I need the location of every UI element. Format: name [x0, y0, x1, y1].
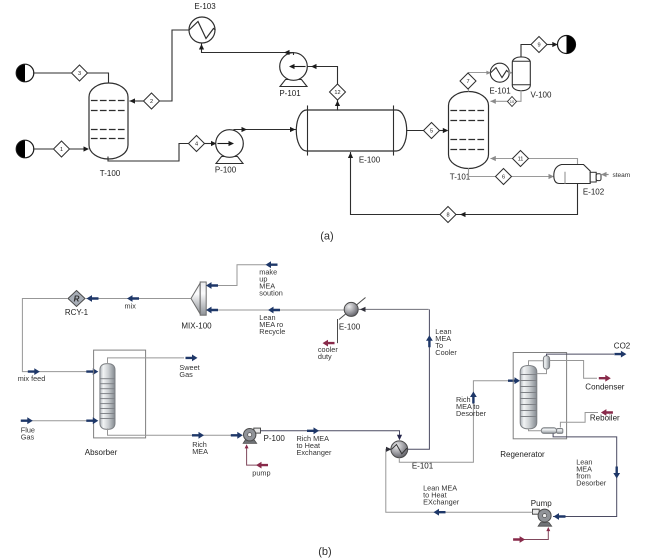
wire feed to diamond 3 — [34, 72, 72, 74]
wire P-100 to E-100 — [234, 127, 296, 132]
wire V-100 top to diamond 9 — [521, 45, 531, 58]
svg-text:10: 10 — [510, 99, 515, 104]
heat exchanger E-103 — [189, 17, 215, 43]
steam inlet arrow — [601, 172, 608, 177]
wire E-100 to diamond 5 — [407, 130, 424, 132]
stream diamond 10 — [508, 97, 517, 107]
svg-text:E-101: E-101 — [489, 87, 511, 96]
stream diamond 1 — [54, 141, 70, 157]
wire T-101 top to E-101 (gray) — [469, 73, 492, 92]
svg-text:P-100: P-100 — [215, 166, 237, 175]
svg-text:P-100: P-100 — [264, 434, 286, 443]
stream diamond 12 — [330, 84, 346, 100]
svg-text:2: 2 — [150, 99, 153, 105]
column T-100 — [89, 83, 128, 159]
wire flue gas into absorber — [21, 417, 99, 424]
wire T-101 bottom to diamond 6 to E-102 (gray) — [469, 169, 555, 179]
wire rich MEA P-100 to E-101 — [261, 427, 403, 440]
wire V-100 bottom to T-101 (gray) — [490, 91, 521, 104]
wire P-101 to E-103 — [199, 44, 294, 55]
svg-text:FlueGas: FlueGas — [21, 426, 35, 442]
wire CO2 out — [547, 351, 627, 358]
stream diamond 7 — [460, 73, 476, 89]
stream diamond 5 — [424, 123, 440, 139]
wire E-101 bottom to regenerator (rich MEA to desorber) — [399, 377, 520, 462]
heat exchanger E-100 (shell) — [296, 106, 406, 155]
svg-text:RichMEA: RichMEA — [192, 440, 208, 456]
wire lean MEA to cooler (E-101 up) — [408, 309, 433, 449]
wire MIX-100 to RCY-1 (stream mix) — [85, 295, 191, 302]
condenser drum — [543, 356, 549, 369]
wire diamond 9 into product circle — [547, 42, 558, 47]
svg-text:Absorber: Absorber — [85, 448, 118, 457]
wire diamond 1 into T-100 — [70, 146, 90, 151]
svg-text:11: 11 — [518, 157, 524, 163]
svg-text:Reboiler: Reboiler — [590, 414, 620, 423]
svg-text:RCY-1: RCY-1 — [65, 308, 89, 317]
cooler E-100 — [339, 298, 366, 320]
svg-text:P-101: P-101 — [279, 89, 301, 98]
svg-text:4: 4 — [195, 142, 198, 148]
wire cooler duty energy — [323, 319, 338, 347]
wire column bottom to reboiler — [529, 429, 542, 431]
svg-text:E-102: E-102 — [583, 188, 605, 197]
feed stream source circle (bottom left) — [16, 140, 34, 158]
feed stream source circle (top left) — [16, 64, 34, 82]
stream diamond 3 — [72, 65, 88, 81]
svg-text:E-100: E-100 — [359, 156, 381, 165]
pump P-100 — [216, 130, 244, 164]
wire pump outlet (lean MEA to heat exchanger) — [386, 447, 533, 516]
wire condenser energy — [550, 361, 611, 382]
svg-text:1: 1 — [60, 147, 63, 153]
svg-text:(a): (a) — [320, 231, 333, 243]
absorber column — [100, 364, 115, 430]
svg-text:pump: pump — [252, 469, 270, 478]
wire lean MEA from desorber to pump — [553, 433, 620, 520]
wire E-102 top to T-101 (stream 11, gray) — [490, 156, 577, 164]
column T-101 — [449, 92, 489, 169]
svg-text:E-103: E-103 — [194, 2, 216, 11]
wire feed to diamond 1 — [34, 148, 54, 150]
svg-text:12: 12 — [334, 90, 340, 96]
reboiler E-102 — [554, 165, 601, 184]
svg-text:6: 6 — [502, 175, 505, 181]
wire cooler inlet from right — [358, 307, 429, 312]
absorber boundary box — [94, 350, 146, 438]
wire pump energy into P-100 — [245, 444, 268, 468]
wire sweet gas out of absorber top — [108, 355, 198, 365]
wire diamond 12 to P-101 — [307, 64, 338, 84]
stream diamond 4 — [189, 136, 205, 152]
stream diamond 9 — [531, 37, 547, 53]
wire diamond 4 into P-100 — [205, 141, 217, 146]
svg-text:3: 3 — [78, 71, 81, 77]
svg-text:8: 8 — [446, 213, 449, 219]
heat exchanger E-101 — [486, 63, 512, 82]
wire diamond 2 into T-100 — [130, 98, 144, 103]
wire lean MEA recycle (cooler to MIX-100) — [206, 307, 344, 314]
svg-text:7: 7 — [466, 79, 469, 85]
svg-text:(b): (b) — [318, 546, 331, 558]
product stream circle — [558, 36, 576, 54]
svg-text:CO2: CO2 — [614, 342, 631, 351]
stream diamond 8 — [440, 207, 456, 223]
svg-text:E-100: E-100 — [339, 323, 361, 332]
svg-text:T-100: T-100 — [100, 169, 121, 178]
regenerator boundary box — [513, 353, 566, 439]
vessel V-100 — [512, 57, 530, 91]
svg-text:steam: steam — [613, 172, 631, 179]
svg-text:mix: mix — [125, 302, 137, 311]
wire rich MEA absorber to P-100 — [108, 429, 243, 439]
wire E-102 bottom to E-100 (stream 8) — [348, 153, 578, 218]
wire E-103 to diamond 2 — [160, 30, 190, 101]
wire reboiler energy — [560, 409, 613, 427]
wire E-101 to V-100 — [509, 72, 512, 74]
regenerator column — [520, 366, 537, 429]
svg-text:Regenerator: Regenerator — [500, 450, 545, 459]
svg-text:R: R — [74, 295, 80, 304]
mixer MIX-100 — [191, 282, 206, 315]
svg-text:E-101: E-101 — [412, 462, 434, 471]
heat exchanger E-101 — [391, 441, 408, 458]
svg-text:V-100: V-100 — [531, 91, 552, 100]
svg-text:mix feed: mix feed — [18, 374, 46, 383]
svg-text:Pump: Pump — [531, 499, 552, 508]
wire E-100 top to diamond 12 — [335, 101, 340, 111]
stream diamond 11 — [513, 151, 529, 167]
svg-text:Condenser: Condenser — [585, 382, 624, 391]
wire column top to condenser — [529, 361, 544, 366]
wire diamond 3 to T-100 top — [88, 73, 109, 84]
svg-text:MIX-100: MIX-100 — [181, 322, 212, 331]
recycle block RCY-1 — [68, 291, 85, 307]
stream diamond 2 — [144, 93, 160, 109]
svg-text:9: 9 — [537, 43, 540, 49]
stream diamond 6 — [496, 169, 512, 185]
wire diamond 5 into T-101 — [440, 128, 449, 133]
wire RCY-1 to absorber (mix feed) — [22, 299, 98, 376]
pump P-100 — [243, 428, 260, 443]
wire make-up MEA into MIX-100 — [206, 261, 278, 289]
wire condenser reflux return — [537, 369, 547, 374]
svg-text:T-101: T-101 — [450, 173, 471, 182]
wire T-100 bottom to diamond 4 — [108, 144, 189, 162]
svg-text:5: 5 — [430, 129, 433, 135]
reboiler drum — [541, 428, 563, 434]
pump (bottom) — [533, 509, 552, 526]
pump P-101 — [280, 53, 308, 87]
wire pump energy into bottom pump — [513, 527, 550, 543]
